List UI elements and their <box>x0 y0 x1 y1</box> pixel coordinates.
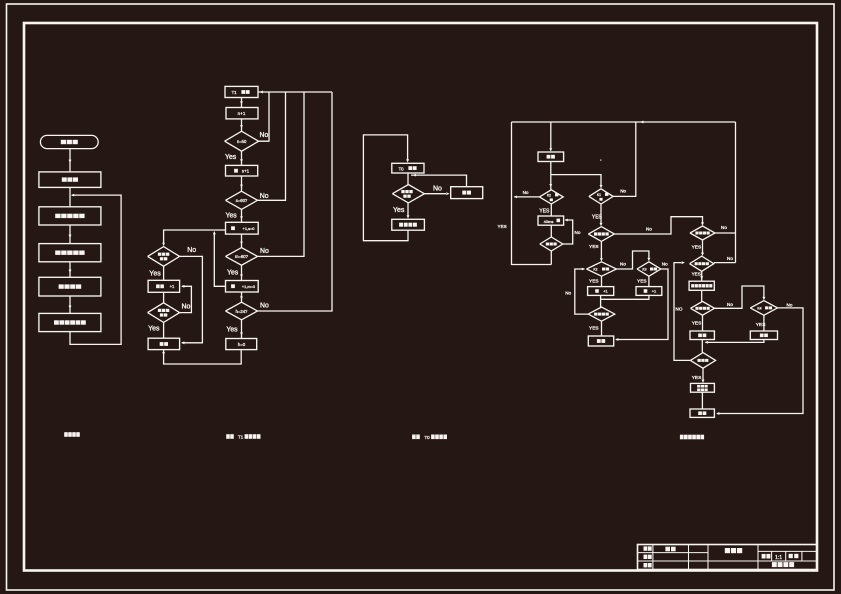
fc4 top bus wire <box>512 121 736 124</box>
fc2 wire s1-d2 <box>240 176 243 191</box>
fc4 box min+1 <box>636 287 662 296</box>
fc2 wire d6-return box <box>163 322 165 338</box>
svg-text:No: No <box>620 189 626 194</box>
fc4 decision L K4 pressed <box>690 256 714 271</box>
fc2 wire d3 no return <box>258 92 305 256</box>
fc4 wire A-E <box>549 162 552 190</box>
fc4 label V yes <box>637 279 647 285</box>
fc4 label Z no <box>565 291 571 296</box>
title block drafter name <box>665 547 675 552</box>
fc4 label E yes <box>539 208 550 214</box>
fc4 wire R-S <box>702 368 705 383</box>
fc4 decision O K3 pressed <box>750 301 777 316</box>
svg-text:K4: K4 <box>757 307 761 311</box>
fc2 sub label yes6 <box>148 326 160 333</box>
fc4 wire V-Y <box>648 276 650 286</box>
fc3 side wire to return box <box>411 174 467 187</box>
title block grid <box>638 545 818 570</box>
fc4 label U no <box>620 261 626 266</box>
svg-text:No: No <box>182 304 191 311</box>
svg-text:No: No <box>575 230 581 235</box>
fc3 label no <box>433 186 442 193</box>
fc4 wire P join <box>705 340 764 344</box>
svg-text:Yes: Yes <box>225 154 237 161</box>
fc2 top return wire <box>258 91 332 94</box>
fc3 box reload <box>392 219 425 230</box>
svg-text:m=60?: m=60? <box>235 254 249 259</box>
fc3 label yes <box>393 207 405 214</box>
fc2 wire box-d6 <box>163 292 165 303</box>
fc2 box h=0 <box>226 339 257 350</box>
fc2 wire h+1 side return <box>213 231 226 286</box>
fc1 wire box1-box2 <box>69 187 71 206</box>
svg-text:YES: YES <box>692 272 701 277</box>
fc2 sub label no5 <box>187 247 196 254</box>
fc4 branch wire A-F <box>551 175 603 189</box>
title block label miaotu <box>644 555 652 559</box>
fc2 decision adj-hour key <box>148 247 180 267</box>
fc1 process box5 <box>39 313 101 331</box>
fc4 box close alarm P <box>750 331 777 340</box>
fc2 label no2 <box>260 193 269 200</box>
fc4 label Z yes <box>589 325 599 331</box>
svg-text:Yes: Yes <box>148 326 160 333</box>
fc4 wire Q-R <box>701 340 703 353</box>
stray dot <box>600 160 601 161</box>
fc4 wire K no <box>715 232 736 234</box>
fc2 box return <box>148 338 180 349</box>
fc4 wire Z-W <box>601 321 603 336</box>
fc1 process box4 <box>39 277 101 296</box>
fc4 wire H-G <box>550 225 552 237</box>
fc2 label no4 <box>260 303 269 310</box>
fc4 wire U-X <box>601 276 603 286</box>
fc4 box alarm adjust <box>689 281 714 290</box>
fc4 label K no <box>721 225 727 230</box>
fc3 loop wire <box>363 135 409 241</box>
fc4 decision K1 pressed <box>589 189 613 204</box>
fc4 box clear flags S <box>691 383 715 392</box>
svg-text:K1: K1 <box>597 193 601 197</box>
fc2 wire d4-box h=0 <box>240 320 243 339</box>
svg-text:h=24?: h=24? <box>236 309 248 314</box>
fc2 box m+1 s=0 <box>226 222 259 234</box>
fc1 wire box3-box4 <box>69 262 72 278</box>
svg-text:No: No <box>433 186 442 193</box>
svg-text:+1,s=0: +1,s=0 <box>243 226 256 231</box>
svg-text:No: No <box>260 132 269 139</box>
fc2 decision h=24 <box>226 302 258 320</box>
fc4 decision R released <box>690 353 715 369</box>
fc2 wire d5-box <box>163 266 165 280</box>
fc2 wire n1-d1 <box>240 119 243 131</box>
fc4 wire K-L <box>701 240 704 256</box>
svg-text:No: No <box>727 302 733 307</box>
fc4 label N no <box>727 302 733 307</box>
title block drawing title yuanlitu <box>725 548 742 553</box>
fc4 wire V no to W <box>615 269 668 341</box>
fc4 label G no <box>575 230 581 235</box>
title block scale 1:1 <box>775 555 782 561</box>
fc2 label no3 <box>260 248 269 255</box>
title block label shenhe <box>644 563 652 567</box>
fc4 label U yes <box>589 279 599 285</box>
fc4 label O no <box>787 303 793 308</box>
fc4 wire J no to K <box>614 217 704 234</box>
fc2 box T1 interrupt <box>225 86 258 97</box>
fc2 label no1 <box>260 132 269 139</box>
svg-text:+1: +1 <box>170 284 175 289</box>
fc4 decision still pressed <box>540 237 563 251</box>
svg-text:n=50: n=50 <box>237 139 247 144</box>
fc1 process box3 <box>39 244 101 262</box>
svg-text:Yes: Yes <box>149 271 161 278</box>
fc1 wire capsule-box1 <box>69 149 72 172</box>
fc2 wire to subchart <box>162 230 225 246</box>
fc3 wire t0-decision <box>407 173 409 185</box>
fc4 caption <box>680 435 704 440</box>
svg-text:Yes: Yes <box>226 213 238 220</box>
fc4 box key scan <box>538 152 564 162</box>
svg-text:No: No <box>565 291 571 296</box>
svg-text:T1: T1 <box>231 90 237 95</box>
fc4 wire G bottom <box>550 251 552 265</box>
fc2 caption <box>226 434 260 440</box>
fc4 wire O no long <box>716 308 803 415</box>
fc3 box return <box>451 187 483 199</box>
svg-text:YES: YES <box>498 224 507 229</box>
fc4 right return wire <box>735 122 737 263</box>
svg-text:K3: K3 <box>642 268 646 272</box>
svg-text:No: No <box>646 227 652 232</box>
fc4 decision Z adjust done <box>588 307 615 321</box>
svg-text:Yes: Yes <box>226 327 238 334</box>
fc2 bottom join wire <box>162 350 241 364</box>
fc2 sub label yes5 <box>149 271 161 278</box>
fc4 wire Z no loop <box>575 268 588 315</box>
fc4 label E no <box>523 190 529 195</box>
fc4 decision K2 pressed <box>539 190 563 204</box>
svg-text:NO: NO <box>676 307 683 312</box>
fc4 label V no <box>662 261 668 266</box>
svg-text:No: No <box>260 193 269 200</box>
fc4 wire N no to O <box>715 286 766 308</box>
svg-text:YES: YES <box>589 325 599 331</box>
fc4 label O yes <box>756 322 766 328</box>
fc4 wire L-M <box>700 271 703 281</box>
svg-text:YES: YES <box>589 279 599 285</box>
svg-text:T0: T0 <box>398 166 404 171</box>
svg-text:YES: YES <box>539 208 550 214</box>
fc2 box h+1 m=0 <box>226 281 259 293</box>
fc2 wire d1 no return <box>259 92 269 141</box>
fc4 label L no <box>727 256 733 261</box>
fc4 label R yes <box>692 375 702 381</box>
fc4 entry wire <box>549 122 552 152</box>
fc4 wire E no <box>514 196 540 199</box>
fc4 label K yes <box>692 245 702 251</box>
fc2 box n+1 <box>226 108 258 119</box>
svg-text:YES: YES <box>692 321 702 327</box>
fc1 loop-back wire <box>70 194 121 345</box>
fc4 wire F no return <box>613 122 636 196</box>
svg-text:h=0: h=0 <box>238 342 246 347</box>
fc1 wire box4-box5 <box>69 296 72 313</box>
fc4 left return wire <box>512 122 552 265</box>
fc2 label yes4 <box>226 327 238 334</box>
fc4 decision N stop alarm <box>691 301 715 315</box>
svg-text:+1: +1 <box>603 289 608 294</box>
fc2 box s+1 <box>226 165 258 176</box>
svg-text:s=60?: s=60? <box>236 198 248 203</box>
fc3 wire no-return <box>424 192 449 195</box>
fc1 caption <box>64 432 80 437</box>
fc4 label L yes <box>692 272 701 277</box>
fc4 box return T <box>690 409 714 417</box>
fc4 label F yes <box>592 214 603 220</box>
fc4 box 40ms delay <box>538 216 564 225</box>
svg-text:YES: YES <box>589 244 599 250</box>
svg-text:No: No <box>187 247 196 254</box>
fc2 wire d4 no return <box>258 92 333 311</box>
fc3 caption <box>412 435 447 441</box>
fc2 decision m=60 <box>226 248 258 266</box>
fc2 wire t1-n1 <box>240 98 243 108</box>
fc2 wire d2 no return <box>258 92 286 200</box>
fc3 wire yes-box <box>407 203 410 219</box>
svg-text:No: No <box>727 256 733 261</box>
svg-text:K2: K2 <box>547 194 551 198</box>
fc4 wire L no <box>714 262 736 264</box>
title block label zhitu <box>644 546 652 550</box>
fc2 wire d6 no <box>180 285 192 313</box>
fc4 wire X-Z <box>600 295 602 307</box>
svg-text:T1: T1 <box>238 435 244 440</box>
fc4 wire O-P <box>763 315 765 331</box>
svg-text:YES: YES <box>637 279 647 285</box>
fc2 decision s=60 <box>226 191 258 209</box>
svg-text:T0: T0 <box>424 435 430 440</box>
svg-text:YES: YES <box>692 245 702 251</box>
fc4 decision alarm ringing <box>588 227 614 242</box>
fc4 box stop ring Q <box>690 331 714 340</box>
fc4 wire J-U <box>600 241 603 261</box>
fc4 label J yes <box>589 244 599 250</box>
fc4 wire G no loop <box>563 219 573 244</box>
svg-text:40ms: 40ms <box>544 219 554 224</box>
fc4 decision U K2 pressed <box>587 262 617 276</box>
fc1 process box1 init <box>39 172 101 188</box>
fc2 label yes3 <box>227 270 239 277</box>
svg-text:No: No <box>523 190 529 195</box>
fc4 label R no <box>676 307 683 312</box>
fc4 wire S-T <box>701 392 703 409</box>
fc2 wire h1-d4 <box>240 292 243 302</box>
fc1 process box2 <box>39 207 101 225</box>
fc1 wire box2-box3 <box>69 225 72 244</box>
svg-text:No: No <box>787 303 793 308</box>
fc4 wire Y join <box>601 295 649 299</box>
svg-text:No: No <box>662 261 668 266</box>
svg-text:Yes: Yes <box>227 270 239 277</box>
fc2 wire d2-box m+1 <box>240 209 243 222</box>
svg-text:s+1: s+1 <box>242 168 250 173</box>
fc2 label yes1 <box>225 154 237 161</box>
fc2 wire m1-d3 <box>240 234 243 248</box>
fc4 label J no <box>646 227 652 232</box>
svg-text:No: No <box>620 261 626 266</box>
svg-text:Yes: Yes <box>393 207 405 214</box>
fc4 label F no <box>620 189 626 194</box>
fc4 wire F-J <box>600 204 603 226</box>
svg-text:+1: +1 <box>652 289 657 294</box>
fc2 wire d3-box h+1 <box>240 265 243 280</box>
fc2 label yes2 <box>226 213 238 220</box>
fc3 decision 1s elapsed <box>392 185 424 203</box>
fc2 decision n=50 <box>225 131 259 151</box>
fc4 decision K alarm on <box>690 226 715 240</box>
fc2 wire d1-box s+1 <box>240 151 243 165</box>
svg-text:+1,m=0: +1,m=0 <box>242 284 256 289</box>
fc4 wire E-H <box>550 204 552 216</box>
fc4 wire N-Q <box>702 315 704 331</box>
fc4 box hour+1 <box>588 287 614 296</box>
svg-text:No: No <box>260 303 269 310</box>
title block label gong zhang <box>789 554 799 558</box>
title block label bili <box>762 554 771 559</box>
fc1 start capsule <box>40 135 98 148</box>
svg-text:K2: K2 <box>593 268 597 272</box>
svg-text:1:1: 1:1 <box>775 555 782 561</box>
fc4 wire M-N <box>701 290 703 301</box>
fc2 box hour adjust <box>148 280 180 292</box>
fc4 label yes-return <box>498 224 507 229</box>
svg-text:No: No <box>721 225 727 230</box>
title block institute name <box>772 562 794 567</box>
svg-text:n+1: n+1 <box>238 111 246 116</box>
fc4 wire R no loop <box>674 261 690 360</box>
fc4 wire U no to V <box>617 251 651 269</box>
svg-text:No: No <box>260 248 269 255</box>
fc3 box T0 interrupt <box>392 163 424 173</box>
svg-text:YES: YES <box>692 375 702 381</box>
fc4 label N yes <box>692 321 702 327</box>
fc2 decision adj-min key <box>148 303 180 323</box>
fc2 sub label no6 <box>182 304 191 311</box>
fc2 wire d5 no <box>180 256 203 344</box>
fc4 box return W <box>588 336 613 346</box>
fc4 decision V K3 pressed <box>637 262 661 276</box>
